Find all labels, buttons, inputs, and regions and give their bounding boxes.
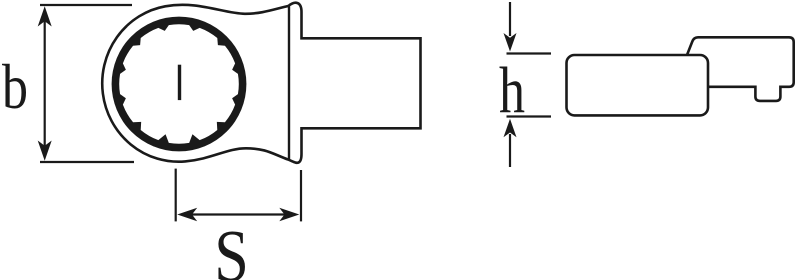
- b arrow down: [38, 141, 52, 161]
- S dimension left extension line: [175, 169, 177, 222]
- S dimension right extension line: [300, 170, 302, 221]
- svg-text:h: h: [499, 54, 525, 127]
- b dimension line: [44, 18, 46, 150]
- S arrow right: [279, 208, 299, 221]
- svg-text:b: b: [2, 52, 28, 122]
- ring wrench head outline (front view): [102, 3, 420, 163]
- S dimension line: [189, 213, 288, 215]
- collar front edge line: [288, 7, 290, 160]
- h upper arrow stem: [509, 2, 511, 36]
- b arrow up: [38, 6, 52, 26]
- h lower arrow stem: [509, 134, 511, 167]
- size mark in bore: [178, 65, 181, 100]
- svg-text:S: S: [214, 215, 249, 280]
- b dimension bottom extension line: [40, 161, 134, 163]
- h dimension top line: [507, 52, 552, 54]
- 12-point bore: black band: [112, 17, 247, 152]
- 12-point star opening: [119, 24, 239, 144]
- b dimension top extension line: [40, 4, 132, 6]
- h dimension bottom line: [507, 115, 552, 117]
- side view tang with locking pin: [687, 37, 794, 101]
- S arrow left: [177, 208, 197, 221]
- h upper arrowhead (down): [504, 33, 517, 52]
- side view body (rounded rectangle): [567, 55, 709, 115]
- h lower arrowhead (up): [504, 119, 517, 138]
